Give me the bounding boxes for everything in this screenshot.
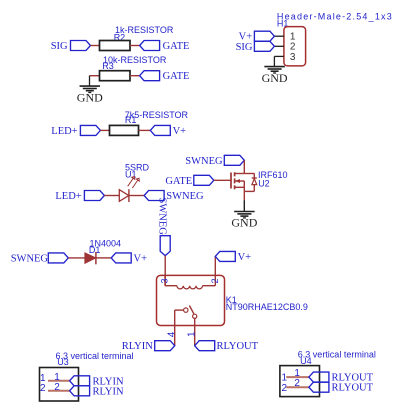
svg-text:2: 2: [282, 383, 288, 394]
svg-text:D1: D1: [89, 245, 101, 255]
svg-text:SIG: SIG: [51, 41, 68, 52]
svg-text:Header-Male-2.54_1x3: Header-Male-2.54_1x3: [277, 12, 393, 22]
svg-text:GATE: GATE: [163, 41, 190, 52]
svg-text:4: 4: [166, 331, 177, 337]
svg-text:GATE: GATE: [165, 176, 192, 187]
svg-text:GATE: GATE: [163, 71, 190, 82]
svg-text:R1: R1: [125, 115, 137, 125]
svg-text:3: 3: [290, 52, 296, 63]
svg-text:2: 2: [54, 382, 60, 393]
svg-text:SWNEG: SWNEG: [156, 198, 167, 236]
svg-text:V+: V+: [238, 252, 252, 263]
svg-text:2: 2: [294, 378, 300, 389]
svg-text:RLYOUT: RLYOUT: [332, 383, 374, 394]
svg-text:2: 2: [40, 383, 46, 394]
svg-text:SWNEG: SWNEG: [185, 156, 223, 167]
svg-text:SWNEG: SWNEG: [11, 253, 49, 264]
svg-text:GND: GND: [231, 216, 257, 230]
svg-text:2: 2: [210, 278, 220, 283]
svg-text:V+: V+: [173, 126, 187, 137]
svg-text:1: 1: [187, 331, 198, 337]
svg-text:RLYOUT: RLYOUT: [217, 341, 259, 352]
svg-text:SIG: SIG: [236, 42, 253, 53]
svg-text:U4: U4: [300, 356, 312, 366]
svg-text:NT90RHAE12CB0.9: NT90RHAE12CB0.9: [226, 302, 308, 312]
svg-text:RLYIN: RLYIN: [93, 386, 124, 397]
svg-text:3: 3: [160, 278, 170, 283]
svg-text:GND: GND: [262, 71, 288, 85]
svg-text:R3: R3: [102, 61, 114, 71]
svg-text:U3: U3: [57, 357, 69, 367]
svg-text:LED+: LED+: [55, 191, 81, 202]
svg-text:U2: U2: [258, 179, 270, 189]
svg-text:GND: GND: [77, 90, 103, 104]
svg-text:LED+: LED+: [51, 126, 77, 137]
svg-text:V+: V+: [134, 253, 148, 264]
svg-text:SWNEG: SWNEG: [166, 191, 204, 202]
